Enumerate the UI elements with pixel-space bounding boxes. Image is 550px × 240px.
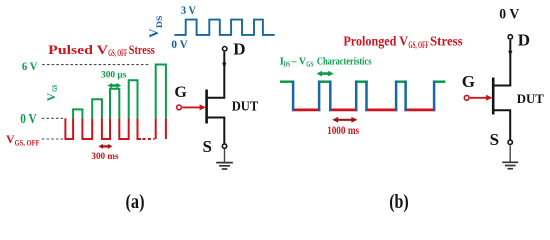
svg-text:GS: GS: [51, 85, 59, 92]
green double arrow (300 us): [108, 83, 122, 88]
svg-text:DUT: DUT: [232, 98, 259, 113]
waveform ellipsis dashes at VGS,OFF: [143, 138, 155, 140]
svg-text:300 ms: 300 ms: [91, 152, 118, 162]
6V dashed reference line: [42, 64, 149, 66]
svg-text:1000 ms: 1000 ms: [327, 123, 359, 137]
prolonged stress waveform: green ON segments: [280, 80, 445, 83]
svg-text:GS, OFF: GS, OFF: [15, 139, 40, 148]
svg-text:GS, OFF: GS, OFF: [108, 48, 127, 58]
svg-text:DS: DS: [283, 61, 290, 69]
DUT (b): gate terminal circle (red): [464, 95, 469, 100]
DUT (a): drain terminal circle: [223, 47, 227, 51]
DUT (a): top lead (drain): [207, 52, 225, 98]
label IDS - VGS Characteristics: [280, 55, 372, 68]
title: Prolonged VGS,OFF Stress: [343, 34, 463, 51]
svg-text:S: S: [490, 130, 499, 149]
svg-text:D: D: [518, 31, 530, 50]
DUT (b): gate bar: [492, 78, 495, 115]
0V dashed reference line: [42, 117, 65, 119]
DUT (b): ground symbol: [502, 162, 518, 168]
svg-text:0 V: 0 V: [171, 39, 188, 51]
DUT (a): gate wire with arrow (red): [182, 106, 200, 108]
DUT (a): gate terminal circle (red): [177, 105, 182, 110]
prolonged stress waveform: blue transition edges: [293, 81, 434, 112]
prolonged stress waveform: red OFF segments: [292, 109, 435, 112]
svg-text:Pulsed V: Pulsed V: [48, 42, 109, 57]
svg-text:DS: DS: [155, 15, 164, 28]
DUT (a): source terminal circle: [222, 144, 226, 148]
svg-text:– V: – V: [291, 55, 306, 67]
DUT (a): drain current arrow: [222, 63, 226, 69]
DUT (a): gate bar: [205, 90, 208, 124]
DUT (b): bottom lead (source): [493, 110, 510, 139]
title: Pulsed VGS,OFF Stress: [48, 42, 155, 58]
svg-text:V: V: [46, 92, 58, 101]
DUT (b): source terminal circle: [508, 140, 512, 144]
svg-text:G: G: [174, 84, 187, 101]
svg-text:0 V: 0 V: [499, 6, 519, 22]
svg-text:D: D: [233, 39, 245, 58]
svg-text:300 μs: 300 μs: [101, 71, 127, 81]
pulsed VGS waveform: green part (above 0V): [65, 65, 165, 140]
svg-text:Stress: Stress: [129, 42, 155, 57]
label VGS,OFF: [6, 132, 40, 147]
VGS,OFF dashed reference line: [42, 138, 65, 140]
pulsed VGS waveform: red part (below 0V): [65, 65, 165, 140]
DUT (a): ground symbol: [216, 163, 233, 169]
svg-text:DUT: DUT: [517, 92, 545, 106]
svg-text:S: S: [203, 137, 212, 156]
DUT (b): drain terminal circle: [508, 35, 512, 39]
dark red double arrow (1000 ms): [332, 117, 357, 123]
svg-text:V: V: [146, 28, 161, 38]
svg-text:Characteristics: Characteristics: [317, 56, 372, 67]
svg-text:G: G: [462, 72, 475, 91]
svg-text:GS, OFF: GS, OFF: [408, 41, 428, 51]
svg-text:Prolonged V: Prolonged V: [343, 34, 408, 49]
svg-text:0 V: 0 V: [20, 111, 37, 126]
svg-text:Stress: Stress: [430, 34, 463, 49]
svg-text:3 V: 3 V: [181, 5, 197, 17]
svg-text:(a): (a): [126, 191, 145, 213]
svg-text:GS: GS: [306, 61, 313, 69]
VDS waveform (blue): [174, 20, 274, 35]
axis label VDS (rotated, blue): [146, 15, 164, 38]
green double arrow (IDS-VGS): [317, 71, 334, 77]
DUT (b): ground stem: [509, 145, 511, 162]
DUT (a): bottom lead (source): [207, 118, 225, 144]
svg-text:(b): (b): [389, 191, 409, 213]
DUT (b): drain wire: [493, 40, 511, 86]
DUT (a): ground stem: [224, 149, 226, 162]
DUT (b): drain current arrow: [508, 51, 512, 57]
DUT (b): gate wire with arrow (red): [470, 97, 487, 99]
svg-text:6 V: 6 V: [22, 59, 38, 73]
red double arrow (300 ms): [98, 144, 112, 149]
axis label VGS (rotated): [46, 85, 59, 101]
